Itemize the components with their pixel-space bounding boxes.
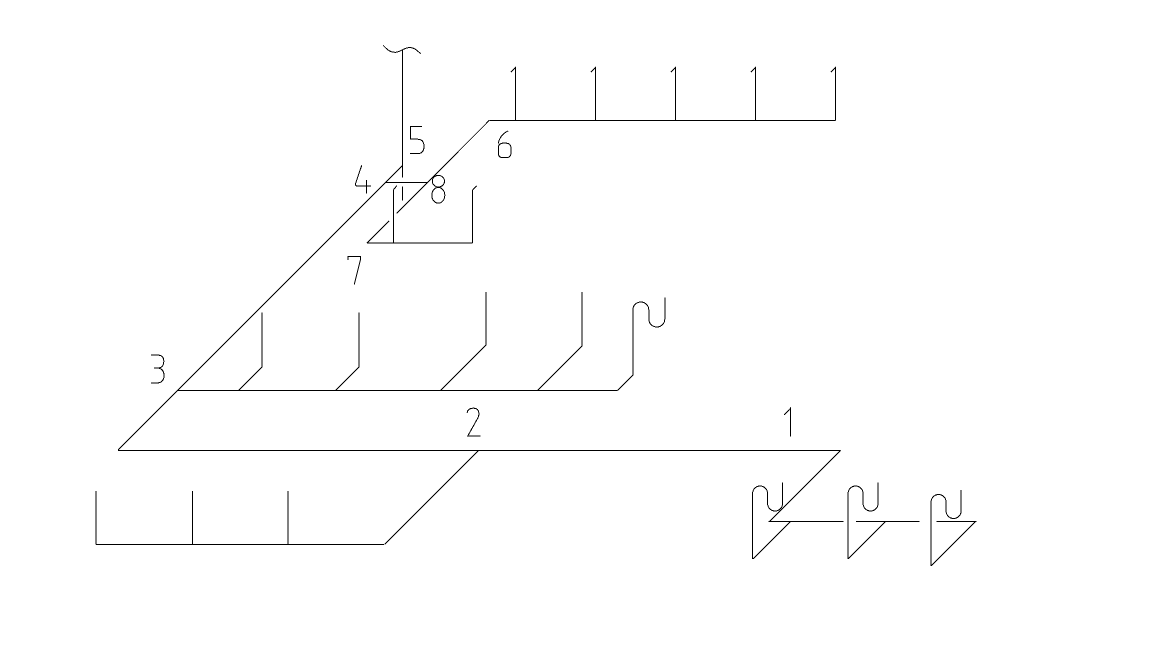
riser tick 5 on top pipe bbox=[831, 67, 836, 120]
riser tick 1 on top pipe bbox=[511, 67, 516, 120]
label 2 bbox=[467, 408, 480, 436]
riser tick 4 on top pipe bbox=[751, 67, 756, 120]
riser tick 2 on top pipe bbox=[591, 67, 596, 120]
riser 5 vertical upper segment bbox=[402, 50, 404, 178]
floor drain header segment 1 bbox=[768, 520, 843, 522]
label 1 bbox=[784, 408, 790, 436]
diagonal drop from node 1 to floor drains bbox=[770, 451, 841, 522]
label 4 bbox=[356, 165, 371, 193]
floor drain unit 1 trap and body bbox=[753, 483, 783, 560]
trap at end of middle pipe bbox=[618, 298, 665, 391]
floor drain unit 1 hypotenuse bbox=[753, 522, 791, 560]
pipe break squiggle at top of riser 5 bbox=[383, 45, 421, 53]
label 3 bbox=[151, 355, 164, 383]
branch 1 on middle pipe bbox=[239, 312, 263, 390]
bottom main horizontal pipe (nodes 2-1) bbox=[118, 449, 841, 451]
fixture unit 7 bottom horizontal pipe bbox=[367, 242, 473, 244]
fixture unit 7 left drop with elbow bbox=[393, 186, 397, 244]
label 8 bottom bowl bbox=[432, 187, 445, 203]
lower-left tick 1 bbox=[95, 491, 97, 544]
second diagonal pipe lower segment (node 8 run) bbox=[367, 221, 389, 243]
branch 3 on middle pipe bbox=[441, 292, 487, 391]
label 6 bbox=[498, 131, 511, 158]
second diagonal pipe upper segment (node 8 run) bbox=[397, 120, 490, 213]
floor drain header segment 3 bbox=[937, 520, 977, 522]
top horizontal pipe (node 6) bbox=[489, 119, 835, 121]
lower-left diagonal riser to node 2 bbox=[385, 451, 479, 545]
floor drain unit 3 trap and body bbox=[931, 490, 961, 566]
lower-left horizontal pipe bbox=[96, 543, 384, 545]
middle horizontal pipe (node 3 branch line) bbox=[178, 390, 618, 392]
riser tick 3 on top pipe bbox=[671, 67, 676, 120]
lower-left tick 2 bbox=[192, 491, 194, 544]
horizontal connector pipe between diagonals (nodes 4-8) bbox=[385, 181, 427, 183]
label 7 bbox=[348, 257, 360, 285]
floor drain header segment 2 bbox=[856, 520, 920, 522]
fixture unit 7 right drop with elbow bbox=[473, 186, 477, 243]
branch 4 on middle pipe bbox=[538, 292, 583, 391]
floor drain unit 2 trap and body bbox=[848, 483, 878, 560]
floor drain unit 2 hypotenuse bbox=[848, 522, 886, 560]
floor drain unit 3 hypotenuse bbox=[931, 522, 975, 566]
main diagonal pipe (node 3 run) bbox=[118, 166, 403, 451]
lower-left tick 3 bbox=[287, 491, 289, 544]
label 8 top bowl bbox=[432, 175, 444, 187]
riser 5 vertical lower stub bbox=[402, 186, 404, 200]
branch 2 on middle pipe bbox=[336, 312, 360, 390]
label 5 bbox=[410, 126, 424, 153]
